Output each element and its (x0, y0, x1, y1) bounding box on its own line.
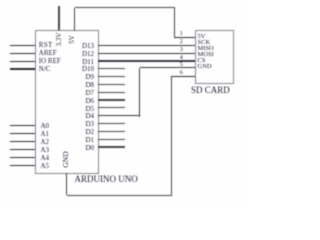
SD label CS (198, 57, 206, 64)
pin 5V rotated label (69, 32, 76, 47)
wire GND: bottom horizontal run (67, 195, 172, 196)
pin D1 wire stub (98, 139, 125, 140)
pin A2 wire (10, 141, 35, 142)
pin D6 label (79, 98, 95, 105)
pin D2 wire stub (98, 131, 125, 132)
SD label GND (198, 63, 212, 70)
pin D8 wire stub (98, 84, 125, 85)
pin D2 label (79, 129, 95, 136)
pin D12 label (79, 51, 95, 58)
pin A0 wire (10, 125, 35, 126)
wire 3.3V stub (58, 6, 59, 30)
pin RST wire (10, 45, 35, 46)
IC U2 SD CARD module body (195, 30, 235, 84)
pin A1 wire (10, 133, 35, 134)
pin D7 wire stub (98, 92, 125, 93)
pin D4 wire to CS riser (98, 115, 140, 116)
pin D11 label (79, 59, 95, 66)
wire 5V: up from arduino top (74, 8, 75, 31)
pin A4 wire (10, 157, 35, 158)
pin A2 label (41, 139, 50, 146)
pin GND rotated label (62, 151, 69, 168)
pin RST label (39, 42, 53, 49)
pin D3 label (79, 121, 95, 128)
SD pin number 6 (180, 70, 183, 76)
pin A0 label (41, 123, 50, 130)
SD label 5V (198, 33, 206, 40)
pin A3 label (41, 147, 50, 154)
SD pin number 4 (180, 55, 183, 61)
wire CS into SD pin5 (140, 67, 196, 68)
pin D5 wire stub (98, 107, 125, 108)
pin N/C wire (10, 68, 35, 69)
SD pin number 5 (180, 62, 183, 68)
pin D10 label (79, 66, 95, 73)
pin D13 label (79, 43, 95, 50)
pin 3.3V rotated label (56, 31, 63, 48)
pin D4 label (79, 113, 95, 120)
pin D8 label (79, 82, 95, 89)
value label ARDUINO UNO (75, 175, 138, 183)
SD pin number 2 (180, 39, 183, 45)
SD label MOSI (198, 51, 214, 58)
pin AREF label (39, 50, 57, 57)
pin IO REF label (39, 58, 61, 65)
pin D9 label (79, 74, 95, 81)
pin A1 label (41, 131, 50, 138)
pin A4 label (41, 155, 50, 162)
pin AREF wire (10, 53, 35, 54)
pin A3 wire (10, 149, 35, 150)
wire GND: up to SD pin6 row (171, 76, 172, 195)
SD pin number 3 (180, 47, 183, 53)
wire 5V: into SD pin1 (175, 37, 195, 38)
SD label SCK (198, 39, 211, 46)
SD pin number 1 (180, 31, 183, 37)
pin D10 wire stub (98, 68, 125, 69)
pin D13 wire to SD SCK (98, 45, 195, 46)
pin D0 label (79, 145, 95, 152)
pin A5 wire (10, 165, 35, 166)
pin A5 label (41, 163, 50, 170)
pin D3 wire stub (98, 123, 125, 124)
wire 5V: down to SD pin1 (174, 8, 175, 38)
IC U1 ARDUINO UNO body (35, 30, 99, 174)
pin D0 wire stub (98, 146, 125, 147)
pin D12 wire to SD MISO (98, 53, 195, 54)
pin D7 label (79, 90, 95, 97)
pin D5 label (79, 106, 95, 113)
wire GND: down from arduino bottom (66, 173, 67, 195)
wire D4-CS riser (139, 68, 140, 117)
value label SD CARD (191, 86, 230, 94)
pin N/C label (39, 66, 51, 73)
pin D6 wire stub (98, 99, 125, 100)
SD label MISO (198, 45, 214, 52)
pin D11 wire to SD MOSI (98, 60, 195, 61)
pin D9 wire stub (98, 76, 125, 77)
wire GND: into SD pin6 (171, 76, 195, 77)
pin D1 label (79, 137, 95, 144)
pin IO REF wire (10, 61, 35, 62)
wire 5V: top horizontal run (75, 7, 175, 8)
